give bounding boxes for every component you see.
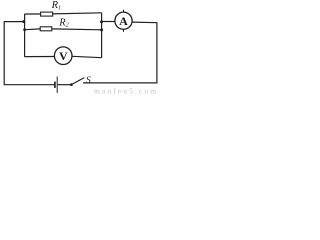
svg-text:S: S [86, 75, 91, 86]
svg-text:manfen5.com: manfen5.com [94, 86, 158, 95]
svg-text:V: V [59, 49, 68, 63]
svg-text:A: A [119, 14, 128, 28]
